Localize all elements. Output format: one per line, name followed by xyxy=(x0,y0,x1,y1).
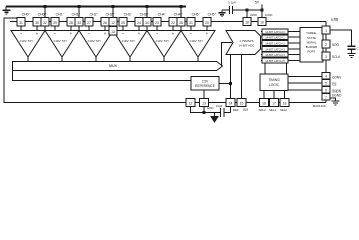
svg-text:GND: GND xyxy=(207,106,213,110)
wire left loop from pin CH0- around to bottom ground row xyxy=(4,18,326,103)
rail junction stubs down to grounded corner pins xyxy=(44,5,183,17)
wire + node corner 3 xyxy=(112,5,115,17)
svg-text:33: 33 xyxy=(77,21,81,25)
wire mux output up into ADC notch xyxy=(222,43,233,67)
svg-text:CH2⁻: CH2⁻ xyxy=(90,12,99,16)
svg-text:CH4⁻: CH4⁻ xyxy=(158,12,167,16)
pin 13 REFMS xyxy=(200,99,209,107)
svg-text:PORT: PORT xyxy=(308,50,316,54)
pin 14 REF xyxy=(226,99,235,107)
wire + node corner 4 xyxy=(146,5,149,17)
wire IC package right edge xyxy=(325,22,327,103)
op-amp A3 xyxy=(79,26,113,62)
svg-text:4: 4 xyxy=(325,75,327,79)
svg-text:+: + xyxy=(104,31,107,36)
svg-text:15: 15 xyxy=(240,102,244,106)
svg-text:TIMING: TIMING xyxy=(268,78,280,82)
wire 5V entry xyxy=(261,5,263,11)
svg-text:24: 24 xyxy=(137,21,141,25)
svg-text:22: 22 xyxy=(171,21,175,25)
pin 3 SCLK xyxy=(322,52,330,60)
pin 25 CH3- xyxy=(119,18,127,27)
svg-text:±10V T/H: ±10V T/H xyxy=(190,39,203,43)
channel name labels xyxy=(22,12,217,16)
svg-text:14: 14 xyxy=(229,102,233,106)
ground below CL xyxy=(348,49,356,57)
svg-text:2.5V: 2.5V xyxy=(202,79,209,83)
svg-text:13: 13 xyxy=(111,30,115,34)
svg-text:32: 32 xyxy=(43,21,47,25)
svg-text:−: − xyxy=(156,31,159,36)
svg-text:14-BIT LATCH 4: 14-BIT LATCH 4 xyxy=(265,53,285,57)
svg-text:DGND: DGND xyxy=(332,94,342,98)
svg-text:17: 17 xyxy=(272,102,276,106)
svg-text:CH5⁺: CH5⁺ xyxy=(208,12,217,16)
bottom pin boxes xyxy=(186,99,289,107)
pin 34 AGND corner4 xyxy=(143,18,151,31)
svg-text:CH5⁻: CH5⁻ xyxy=(192,12,201,16)
svg-text:SEL0: SEL0 xyxy=(280,108,287,112)
svg-text:CH1⁺: CH1⁺ xyxy=(72,12,81,16)
svg-text:CH0⁻: CH0⁻ xyxy=(22,12,31,16)
op-amp A1 xyxy=(11,26,45,62)
svg-text:+: + xyxy=(138,31,141,36)
pin 29 CH1- xyxy=(51,18,59,27)
svg-text:5: 5 xyxy=(325,82,327,86)
svg-text:18: 18 xyxy=(245,21,249,25)
svg-text:35: 35 xyxy=(179,21,183,25)
svg-text:8 R̅B̅: 8 R̅B̅ xyxy=(331,18,338,22)
wire ADC to CLK pin (vertical) xyxy=(241,55,243,99)
svg-text:C̅S̅: C̅S̅ xyxy=(332,82,336,86)
right edge pin boxes (serial port) xyxy=(322,26,330,60)
svg-text:S̅H̅D̅N̅: S̅H̅D̅N̅ xyxy=(332,89,342,93)
svg-text:±10V T/H: ±10V T/H xyxy=(54,39,67,43)
svg-text:SDO: SDO xyxy=(332,43,339,47)
wire + node corner 1 xyxy=(44,5,47,17)
svg-text:21: 21 xyxy=(189,21,193,25)
svg-text:14-BIT LATCH 5: 14-BIT LATCH 5 xyxy=(265,59,285,63)
wire + node corner 2 xyxy=(78,5,81,17)
svg-text:16: 16 xyxy=(262,102,266,106)
svg-text:+: + xyxy=(36,31,39,36)
pin 21 CH5- xyxy=(187,18,195,27)
svg-text:31: 31 xyxy=(19,21,23,25)
wire + node corner 5 xyxy=(180,5,183,17)
top pin boxes xyxy=(17,18,211,36)
wire supply rail xyxy=(233,9,263,11)
svg-text:DVDD: DVDD xyxy=(265,13,272,17)
wire DGND pin to ground xyxy=(330,98,336,101)
pin 2 SDO xyxy=(322,40,330,48)
pin 24 CH3+ xyxy=(135,18,143,27)
pin 16 SEL2 xyxy=(260,99,269,107)
svg-text:1: 1 xyxy=(325,29,327,33)
svg-text:30: 30 xyxy=(35,21,39,25)
latch 4 xyxy=(261,52,300,57)
ground (rotated) for 0.1uF cap xyxy=(219,10,226,16)
bottom labels xyxy=(207,104,287,112)
svg-text:14-BIT LATCH 1: 14-BIT LATCH 1 xyxy=(265,36,285,40)
svg-text:SEL2: SEL2 xyxy=(259,108,266,112)
wire DVDD stub xyxy=(261,10,263,18)
pin 5 CS xyxy=(322,80,330,87)
ground bottom-right xyxy=(332,101,340,105)
svg-text:±10V T/H: ±10V T/H xyxy=(88,39,101,43)
wire top common rail xyxy=(6,6,186,8)
svg-text:±10V T/H: ±10V T/H xyxy=(20,39,33,43)
svg-text:20: 20 xyxy=(205,21,209,25)
pin 30 CH0+ xyxy=(33,18,41,27)
right edge pin boxes (timing) xyxy=(322,73,330,101)
svg-text:CH3⁻: CH3⁻ xyxy=(124,12,133,16)
latch 2 xyxy=(261,41,300,46)
pin 12 AGND corner3 xyxy=(109,18,117,31)
capacitor 0.1uF xyxy=(222,6,233,14)
svg-text:CH3⁺: CH3⁺ xyxy=(140,12,149,16)
pin 15 INT xyxy=(237,99,246,107)
svg-text:BUFFER: BUFFER xyxy=(306,45,318,49)
svg-text:−: − xyxy=(88,31,91,36)
svg-text:26: 26 xyxy=(103,21,107,25)
svg-text:7: 7 xyxy=(325,96,327,100)
wire latch stack to timing logic xyxy=(264,63,266,74)
svg-text:REFERENCE: REFERENCE xyxy=(195,84,215,88)
pin 27 CH2- xyxy=(85,18,93,27)
wire EOC pin to pullup cap xyxy=(330,30,352,46)
pin 33 AGND corner2 xyxy=(75,18,83,31)
svg-text:STATE: STATE xyxy=(307,36,316,40)
svg-text:18: 18 xyxy=(283,102,287,106)
pin 23 CH4- xyxy=(153,18,161,27)
svg-text:0.1µF: 0.1µF xyxy=(228,1,236,5)
pin 7 DGND xyxy=(322,94,330,101)
pin 17 SEL1 xyxy=(270,99,279,107)
svg-text:13: 13 xyxy=(202,102,206,106)
svg-text:−: − xyxy=(190,31,193,36)
wire reference to REF line xyxy=(219,83,231,85)
svg-text:14-BIT LATCH 3: 14-BIT LATCH 3 xyxy=(265,47,285,51)
pin 28 CH1+ xyxy=(67,18,75,27)
op-amp A6 xyxy=(181,26,215,62)
pin 1 EOC xyxy=(322,26,330,34)
analog multiplexer MUX xyxy=(13,62,223,71)
svg-text:CONV: CONV xyxy=(332,75,342,79)
pin 18b SEL0 xyxy=(280,99,289,107)
wire buffer port to timing logic xyxy=(286,63,288,74)
svg-text:I̅N̅T̅: I̅N̅T̅ xyxy=(243,108,248,112)
capacitor CL on EOC xyxy=(348,46,356,49)
svg-text:25: 25 xyxy=(121,21,125,25)
svg-text:+: + xyxy=(70,31,73,36)
svg-text:−: − xyxy=(54,31,57,36)
latch 5 xyxy=(261,58,300,63)
svg-text:10µF: 10µF xyxy=(216,104,223,108)
svg-text:12: 12 xyxy=(111,21,115,25)
pin 26 CH2+ xyxy=(101,18,109,27)
svg-text:2: 2 xyxy=(325,43,327,47)
pin 35 AGND corner5 xyxy=(177,18,185,31)
capacitor 10uF plates xyxy=(221,108,225,117)
timing logic block xyxy=(260,74,288,91)
svg-text:LOGIC: LOGIC xyxy=(269,83,280,87)
pin 10 DVDD xyxy=(258,18,266,26)
wire ADC to REF pin (vertical) xyxy=(230,55,232,99)
pin 6 SHDN xyxy=(322,87,330,94)
wire timing to CONV pin xyxy=(288,76,322,78)
three-state serial buffer port block xyxy=(300,28,323,63)
wire timing to CS pin xyxy=(288,82,322,84)
wire reference to REFMS pin xyxy=(203,90,205,99)
op-amp A5 xyxy=(147,26,181,62)
op-amp A4 xyxy=(113,26,147,62)
latch 0 xyxy=(261,29,300,34)
svg-text:±10V T/H: ±10V T/H xyxy=(156,39,169,43)
svg-text:+: + xyxy=(206,31,209,36)
svg-text:CH4⁺: CH4⁺ xyxy=(174,12,183,16)
wire timing to SHDN pin xyxy=(288,89,322,91)
latch 1 xyxy=(261,35,300,40)
2.5V reference block xyxy=(191,77,219,91)
svg-text:±10V T/H: ±10V T/H xyxy=(122,39,135,43)
wire AVDD stub xyxy=(246,10,248,18)
pin 22 CH4+ xyxy=(169,18,177,27)
svg-text:29: 29 xyxy=(53,21,57,25)
latch 3 xyxy=(261,46,300,51)
wire IC package top edge xyxy=(10,21,326,23)
14-bit latch stack xyxy=(261,29,300,63)
svg-text:CH1⁻: CH1⁻ xyxy=(56,12,65,16)
svg-text:SCLK: SCLK xyxy=(332,55,341,59)
ADC banner 1.75Msps 14-bit xyxy=(226,31,261,55)
svg-text:6: 6 xyxy=(325,89,327,93)
pin 31 CH0- xyxy=(17,18,25,27)
svg-text:34: 34 xyxy=(145,21,149,25)
svg-text:MAX1329: MAX1329 xyxy=(313,104,326,108)
op-amp A2 xyxy=(45,26,79,62)
svg-text:CH0⁺: CH0⁺ xyxy=(38,12,47,16)
pin 4 CONV xyxy=(322,73,330,80)
pin 13 AGND stacked below corner3 xyxy=(109,27,117,36)
wire timing to SEL pins xyxy=(263,91,265,99)
svg-text:−: − xyxy=(122,31,125,36)
node DVDD dot xyxy=(261,9,264,12)
svg-text:23: 23 xyxy=(155,21,159,25)
svg-text:14-BIT LATCH 2: 14-BIT LATCH 2 xyxy=(265,42,285,46)
svg-text:1.75MSPS: 1.75MSPS xyxy=(239,39,253,43)
svg-text:AVDD: AVDD xyxy=(250,13,257,17)
svg-text:14-BIT LATCH 0: 14-BIT LATCH 0 xyxy=(265,30,285,34)
svg-text:14-BIT ADC: 14-BIT ADC xyxy=(239,44,256,48)
REF bypass branch: GND pins - ground - 10uF - REF pin xyxy=(191,107,231,113)
svg-text:27: 27 xyxy=(87,21,91,25)
svg-text:MUX: MUX xyxy=(109,64,118,68)
T/H amplifiers row xyxy=(11,26,215,62)
svg-text:SEL1: SEL1 xyxy=(269,108,276,112)
svg-text:−: − xyxy=(20,31,23,36)
pin 18 AVDD xyxy=(243,18,251,26)
pin 12 GND a xyxy=(186,99,195,107)
svg-text:12: 12 xyxy=(189,102,193,106)
node junction dot below GND pin xyxy=(203,111,206,114)
pin 32 AGND corner1 xyxy=(41,18,49,31)
pin 20 CH5+ xyxy=(203,18,211,27)
svg-text:SERIAL: SERIAL xyxy=(306,40,317,44)
svg-text:3: 3 xyxy=(325,55,327,59)
ground (arrow style) below 10uF branch xyxy=(211,113,218,123)
node REF junction dot xyxy=(229,82,232,85)
wire mux bottom to reference xyxy=(13,71,192,81)
ground top-left xyxy=(3,7,11,15)
svg-text:10: 10 xyxy=(260,21,264,25)
svg-text:+: + xyxy=(172,31,175,36)
node AVDD dot xyxy=(246,9,249,12)
svg-text:THREE-: THREE- xyxy=(306,31,317,35)
svg-text:CH2⁺: CH2⁺ xyxy=(106,12,115,16)
svg-text:REF: REF xyxy=(233,108,239,112)
svg-text:28: 28 xyxy=(69,21,73,25)
